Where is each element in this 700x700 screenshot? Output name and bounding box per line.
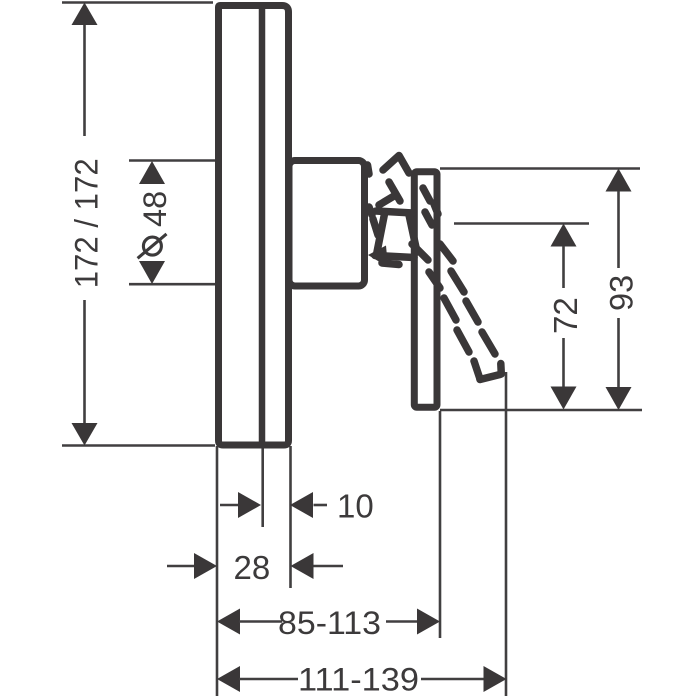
lever down dash left 3 <box>457 330 469 352</box>
dim 72 line upper <box>562 246 565 288</box>
svg-text:111-139: 111-139 <box>298 662 419 698</box>
dim 111-139 arrow left <box>217 666 240 692</box>
dim 172 arrow up <box>72 3 98 26</box>
lever up dash left b <box>373 219 378 235</box>
lever down solid start <box>412 244 428 260</box>
lever down tip dash <box>497 364 505 375</box>
lever up dash left a <box>368 165 370 174</box>
dim 85-113 arrow left <box>217 609 240 635</box>
handle hub bottom edge <box>375 256 414 258</box>
dim 10 tail right <box>314 504 328 507</box>
svg-text:172 / 172: 172 / 172 <box>68 158 104 288</box>
svg-text:48: 48 <box>137 191 173 227</box>
handle escutcheon bar <box>414 172 437 408</box>
lever down dash right 2 <box>451 271 464 292</box>
svg-text:93: 93 <box>604 275 640 311</box>
handle hub right edge <box>409 215 417 252</box>
dim 28 tail right <box>314 565 344 568</box>
lever up dash mid a <box>379 196 394 205</box>
diameter symbol circle <box>143 237 161 255</box>
dim diameter arrow up <box>139 161 165 184</box>
dim diameter arrow down <box>139 261 165 284</box>
dim 172 line lower <box>83 300 86 423</box>
diameter symbol slash <box>138 234 167 258</box>
extension line 93 top <box>440 167 640 170</box>
svg-text:85-113: 85-113 <box>278 605 381 641</box>
dim 93 line lower <box>617 318 620 387</box>
lever up dash left a2 <box>369 207 372 215</box>
extension line right bottom <box>440 409 642 412</box>
valve body <box>289 161 365 287</box>
extension line 72 top <box>454 222 589 225</box>
extension line lever tip vertical <box>505 372 508 696</box>
extension line handle bar vertical <box>439 411 442 638</box>
dim 28 arrow left <box>194 553 217 579</box>
dim 85-113 arrow right <box>417 609 440 635</box>
lever down dash left 4 <box>474 361 480 379</box>
dim 28 tail left <box>167 565 196 568</box>
lever down dash right 1 <box>440 244 453 261</box>
dim 10 tail left <box>220 504 240 507</box>
extension line diameter top <box>129 159 292 162</box>
lever down tip cap <box>480 375 500 380</box>
dim 10 arrow right <box>290 492 313 518</box>
dim 111-139 line right <box>421 678 484 681</box>
handle hub top edge <box>376 211 413 213</box>
wall plate inner edge <box>259 7 266 443</box>
handle hub pointer <box>368 246 388 268</box>
dim 85-113 line right <box>386 620 418 623</box>
dim 93 arrow up <box>606 169 632 192</box>
extension line plate inner vertical <box>261 446 264 527</box>
lever down dash right 4 <box>482 332 495 354</box>
dim 111-139 line left <box>239 678 298 681</box>
wall plate outline <box>219 6 289 446</box>
extension line plate left vertical <box>216 446 219 696</box>
dim 172 line upper <box>83 25 86 136</box>
extension line bottom (172 bottom) <box>62 444 215 447</box>
handle hub lower blob <box>382 263 399 265</box>
dim 10 arrow left <box>238 492 261 518</box>
lever up dashed tip <box>383 156 409 174</box>
dim 72 arrow up <box>551 224 577 247</box>
dim 72 arrow down <box>551 387 577 410</box>
lever down dash left 1 <box>429 272 440 288</box>
dim 85-113 line left <box>239 620 282 623</box>
dim 172 arrow down <box>72 423 98 446</box>
dim 72 line lower <box>562 338 565 387</box>
extension line top (172 top) <box>62 1 213 4</box>
lever down dash right 3 <box>466 301 478 322</box>
dim 93 arrow down <box>606 387 632 410</box>
dim 28 arrow right <box>291 553 314 579</box>
extension line plate right vertical <box>289 446 292 588</box>
handle hub left edge <box>377 214 385 252</box>
lever up dash right b <box>425 212 432 225</box>
svg-text:72: 72 <box>547 297 584 334</box>
lever down dash left 2 <box>444 298 456 320</box>
svg-text:10: 10 <box>337 488 374 525</box>
dim 93 line upper <box>617 191 620 268</box>
extension line diameter bottom <box>129 283 300 286</box>
dim 111-139 arrow right <box>484 666 507 692</box>
svg-text:28: 28 <box>234 549 271 586</box>
lever up dash right a <box>423 188 430 201</box>
lever up dash mid b <box>389 182 400 201</box>
lever up dash right c <box>434 204 438 214</box>
